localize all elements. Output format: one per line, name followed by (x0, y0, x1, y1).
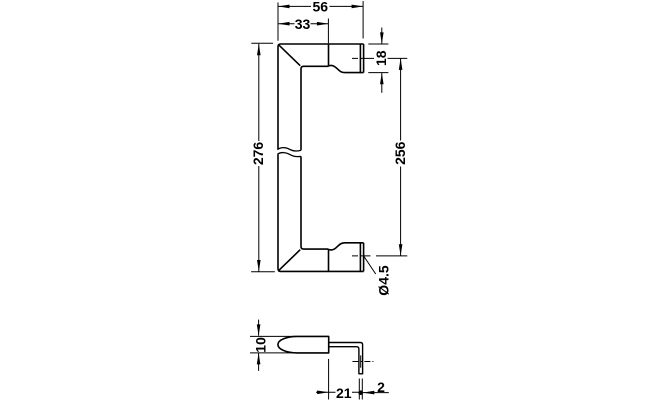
dimension 33 (278, 19, 328, 44)
dimension 10 (258, 320, 260, 371)
bottom flange back face (363, 243, 365, 272)
break symbol lower wave (278, 153, 302, 157)
svg-text:276: 276 (250, 142, 266, 166)
bottom view hole center cross (352, 355, 373, 367)
handle inner edge top arm (301, 66, 329, 150)
dimension 21 (316, 359, 361, 400)
leader line for hole diameter (364, 256, 376, 274)
svg-text:21: 21 (336, 385, 352, 400)
svg-text:56: 56 (313, 0, 329, 15)
top joint line (328, 44, 330, 66)
dimension 56 (278, 1, 363, 41)
dimension 18 (368, 28, 388, 93)
bottom neck top curve (329, 243, 364, 250)
top hole centerline (352, 57, 407, 59)
handle top arm outer edge and left bar upper segment (278, 44, 364, 150)
svg-text:Ø4.5: Ø4.5 (376, 265, 392, 296)
top neck bottom curve (329, 65, 364, 72)
dimension 256 (400, 58, 402, 255)
bottom bevel diagonal (279, 250, 300, 271)
break symbol upper wave (278, 148, 302, 151)
svg-text:33: 33 (295, 16, 311, 32)
svg-text:2: 2 (377, 379, 385, 395)
bottom joint line (328, 249, 330, 271)
bottom view grip capsule outline (278, 336, 329, 353)
dimension 2 dot marker (358, 390, 363, 395)
dimension 2 (359, 379, 389, 400)
bottom view flange strip L-shape (329, 343, 363, 374)
bottom hole centerline (352, 255, 407, 257)
svg-text:256: 256 (392, 141, 408, 165)
bottom view capsule extension lines (250, 336, 297, 353)
top flange front face (359, 44, 361, 73)
svg-text:18: 18 (373, 50, 389, 66)
top bevel diagonal (279, 45, 300, 66)
top flange back face (363, 44, 365, 73)
svg-text:10: 10 (253, 337, 269, 353)
bottom flange front face (359, 243, 361, 272)
handle inner edge bottom arm (301, 156, 329, 249)
handle left bar lower segment and bottom arm outer edge (278, 154, 364, 271)
dimension 276 (251, 43, 275, 271)
